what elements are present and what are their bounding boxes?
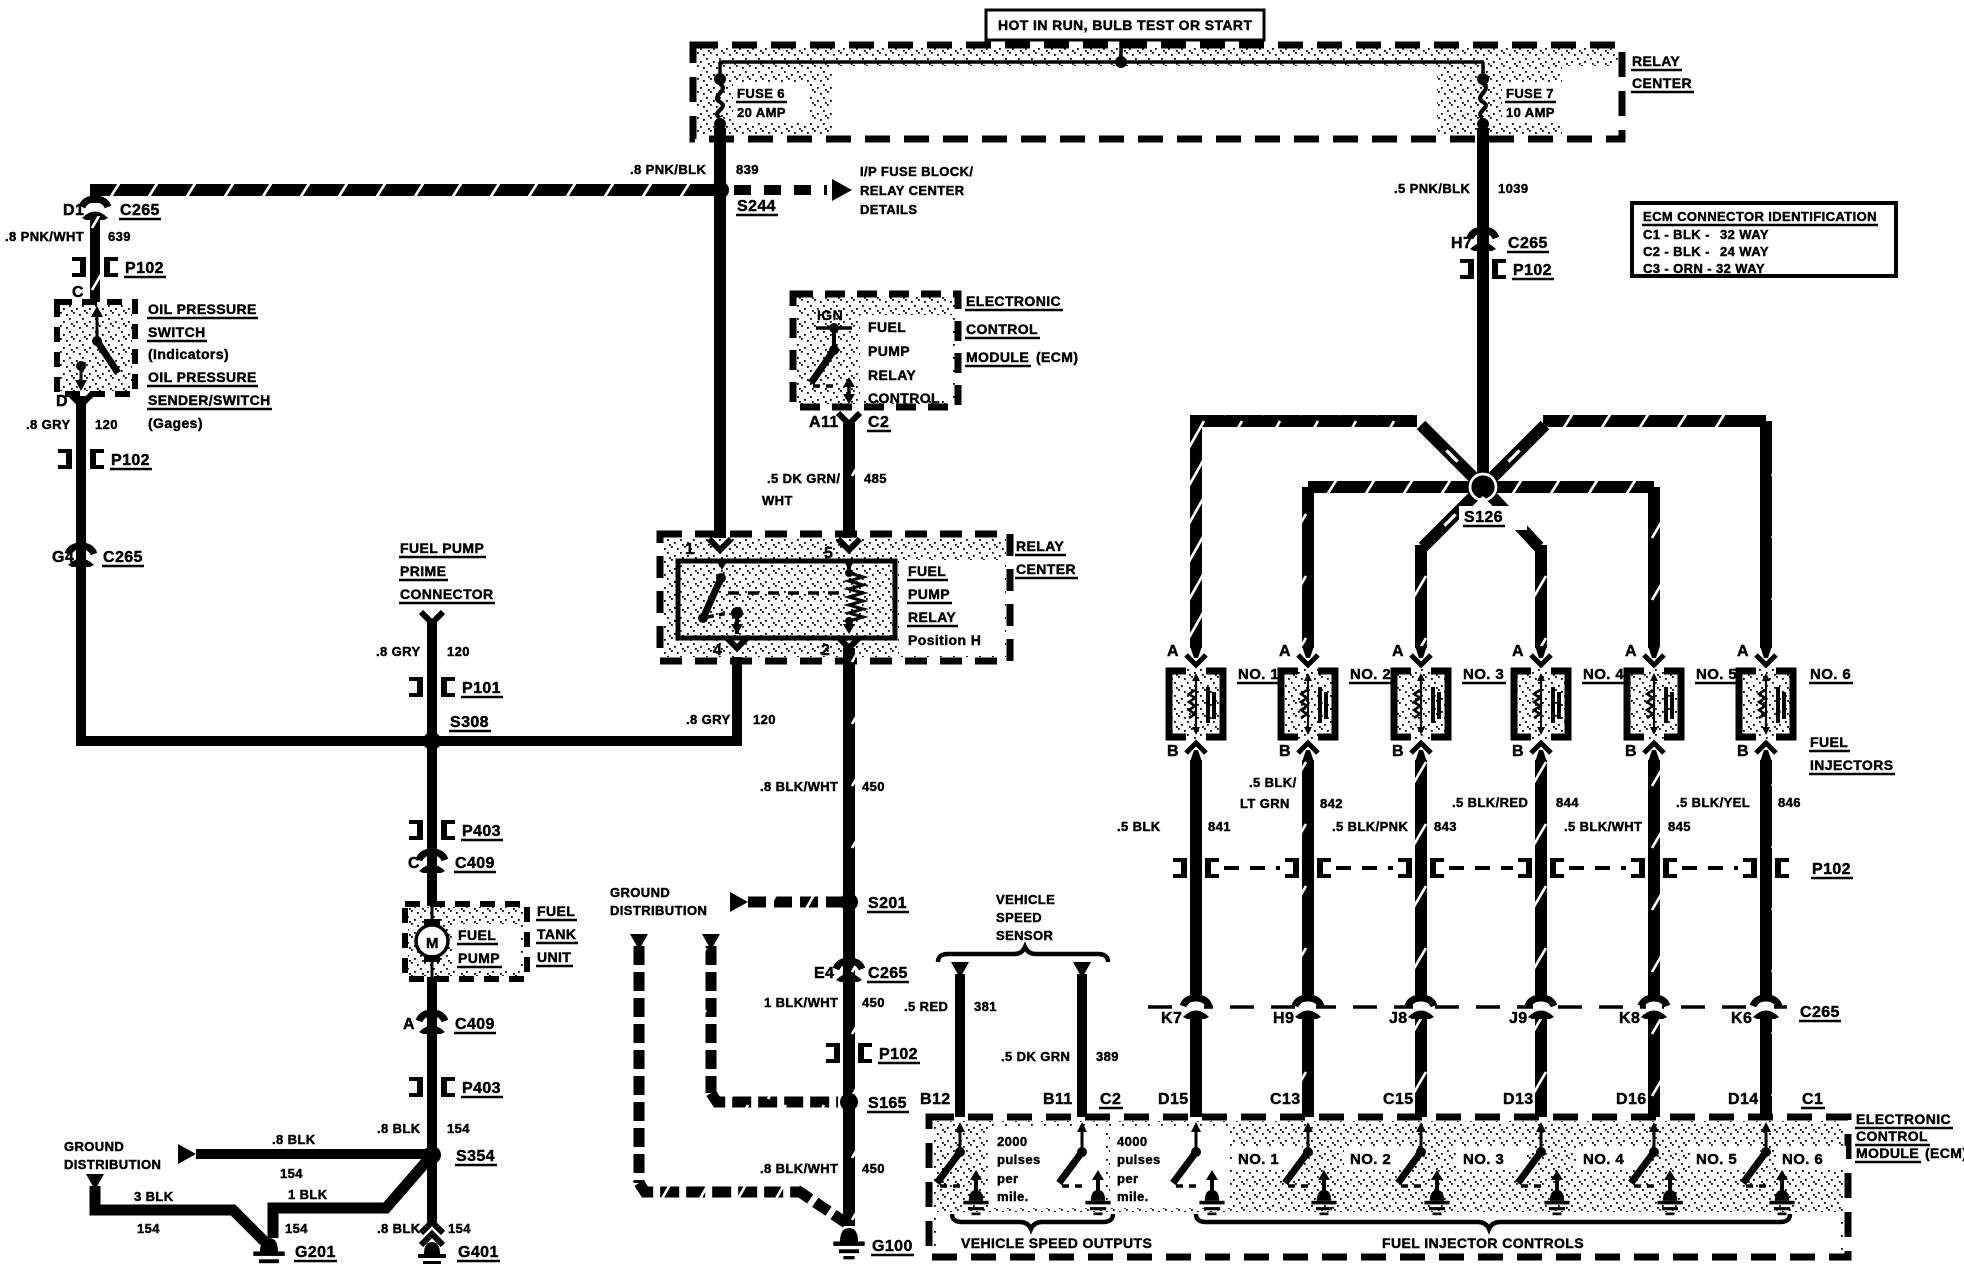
svg-text:10 AMP: 10 AMP [1506,105,1555,120]
label .8 BLK/WHT 450 lower [760,1161,885,1176]
svg-text:DETAILS: DETAILS [860,202,917,217]
wire injector feed 5 [1483,479,1654,648]
oil pressure switch labels [147,301,272,431]
fuel pump prime connector label [399,540,495,603]
relay center (middle) label [1015,538,1078,578]
svg-text:D13: D13 [1503,1091,1534,1108]
ground G401 [418,1242,446,1264]
label D1 C265 [63,202,161,219]
label .5 DK GRN 389 [1001,1049,1119,1064]
label B pin injector 5 [1625,743,1637,760]
svg-text:154: 154 [448,1221,471,1236]
wire injector 6 to ECM [1760,760,1772,1117]
label .8 BLK/WHT 450 upper [760,779,885,794]
label NO. 3 driver [1457,1146,1527,1170]
label C C409 [408,855,496,872]
svg-text:NO. 5: NO. 5 [1696,1151,1737,1168]
label B pin injector 2 [1279,743,1291,760]
label pin 1 [685,541,694,558]
svg-text:TANK: TANK [537,926,576,942]
svg-text:B12: B12 [920,1091,951,1108]
svg-text:C: C [408,855,420,872]
label NO. 3 [1462,666,1506,683]
label NO. 6 driver [1776,1146,1846,1170]
label 1 BLK 154 [285,1187,328,1236]
connector row C265 (injectors) [1148,997,1790,1019]
fuse 6 label [733,84,809,122]
svg-text:B: B [1512,743,1524,760]
svg-text:OIL PRESSURE: OIL PRESSURE [148,301,257,317]
svg-text:.5 BLK: .5 BLK [1117,819,1161,834]
connector C265 pin D1 [82,199,108,220]
svg-text:G100: G100 [872,1238,913,1255]
svg-text:.8 PNK/BLK: .8 PNK/BLK [630,162,706,177]
label P102 [1512,262,1554,279]
svg-text:RELAY: RELAY [1632,53,1680,69]
wire 3 BLK [86,1174,264,1241]
wire 639 PNK/WHT [90,216,100,302]
svg-text:P102: P102 [111,452,150,469]
label .8 BLK 154 g401 [377,1221,471,1236]
connector P102 (left) [72,257,118,277]
label .5 DK GRN/WHT 465 [762,471,887,508]
driver injector 5 [1631,1122,1683,1215]
wire injector 2 to ECM [1302,760,1314,1117]
fuel tank unit box [405,904,527,979]
svg-text:P403: P403 [462,1080,501,1097]
svg-text:PUMP: PUMP [458,950,500,966]
svg-text:(ECM): (ECM) [1925,1145,1964,1161]
svg-text:C: C [72,284,84,301]
wire 465 DK GRN/WHT [843,423,855,540]
terminal cup pin 1 [709,539,731,550]
svg-text:20 AMP: 20 AMP [737,105,786,120]
label P101 [461,680,503,697]
label A C409 [403,1016,496,1033]
svg-text:.5 DK GRN/: .5 DK GRN/ [767,471,840,486]
vehicle speed sensor brace [938,947,1108,962]
svg-text:.8 BLK/WHT: .8 BLK/WHT [760,779,838,794]
ground distribution dashed wire right [702,934,838,1102]
wire 1039 PNK/BLK [1477,128,1489,487]
label NO. 4 [1582,666,1626,683]
wire injector 4 to ECM [1535,760,1547,1117]
wire injector 3 to ECM [1415,760,1427,1117]
svg-text:.8 BLK/WHT: .8 BLK/WHT [760,1161,838,1176]
label NO. 1 driver [1232,1146,1302,1170]
svg-text:.5 BLK/: .5 BLK/ [1249,775,1297,790]
wire injector feed 2 [1308,479,1483,648]
wire injector 5 to ECM [1648,760,1660,1117]
svg-text:VEHICLE SPEED OUTPUTS: VEHICLE SPEED OUTPUTS [961,1235,1152,1251]
label I/P fuse block details [860,164,973,217]
svg-text:CENTER: CENTER [1016,561,1076,577]
terminal cup pin 4 [726,637,748,648]
svg-text:C1: C1 [1802,1091,1823,1108]
connector C265 pin G4 [68,546,94,567]
label S201 [867,895,909,912]
label G100 [871,1238,914,1255]
label 1 BLK/WHT 450 [764,995,885,1010]
injector NO. 6 [1739,646,1793,762]
svg-text:(ECM): (ECM) [1036,349,1078,365]
relay linkage dashed line [728,591,843,595]
wire .8 BLK to ground distribution [178,1144,432,1164]
label .8 PNK/BLK 839 [630,162,759,177]
svg-text:UNIT: UNIT [537,949,571,965]
wire injector feed 6 [1483,413,1766,648]
label P403 upper [461,823,503,840]
fuse 7 label [1502,84,1578,122]
svg-text:H9: H9 [1273,1010,1294,1027]
wire 639 PNK/BLK horizontal run [95,182,720,198]
label C1 [1801,1091,1825,1108]
wire 1 BLK [273,1155,432,1238]
svg-text:A: A [1512,643,1524,660]
node S201 [840,893,858,911]
wire fuel pump to S354 [427,977,437,1155]
svg-text:WHT: WHT [762,493,793,508]
injector NO. 2 [1281,646,1335,762]
svg-text:B: B [1392,743,1404,760]
svg-text:120: 120 [95,417,118,432]
label IGN [817,307,843,323]
label .8 BLK 154 horiz [272,1132,316,1181]
wire 389 DK GRN [1073,962,1091,1117]
svg-text:2: 2 [821,642,830,659]
svg-text:SPEED: SPEED [996,910,1042,925]
label 3 BLK 154 [134,1189,174,1236]
connector C265 pin E4 [836,961,862,982]
svg-text:485: 485 [864,471,887,486]
svg-text:GROUND: GROUND [64,1139,124,1154]
injector NO. 5 [1627,646,1681,762]
wire to ground distribution (S201) [730,892,843,912]
svg-text:C265: C265 [103,549,143,566]
svg-text:ELECTRONIC: ELECTRONIC [1856,1111,1951,1127]
svg-text:OIL PRESSURE: OIL PRESSURE [148,369,257,385]
label NO. 4 driver [1577,1146,1647,1170]
svg-text:(Indicators): (Indicators) [148,346,229,362]
svg-text:pulses: pulses [1117,1152,1161,1167]
driver 2000 ppm [937,1122,989,1215]
svg-text:VEHICLE: VEHICLE [996,892,1055,907]
fuel injector controls brace [1196,1214,1790,1229]
svg-text:154: 154 [137,1221,160,1236]
label ECM pin 2 [1270,1091,1301,1108]
svg-text:NO. 4: NO. 4 [1583,666,1624,683]
fuel pump relay outline [678,561,895,638]
svg-text:C265: C265 [868,965,908,982]
svg-text:CONTROL: CONTROL [868,390,940,406]
svg-text:NO. 6: NO. 6 [1782,1151,1823,1168]
svg-text:639: 639 [108,229,131,244]
svg-text:.8 GRY: .8 GRY [26,417,71,432]
wire 639 down to D1 [90,184,100,203]
wire injector feed 3 [1421,487,1483,648]
label K7 [1161,1010,1182,1027]
svg-text:A: A [1167,643,1179,660]
svg-text:IGN: IGN [817,307,843,323]
label P102 row [1811,861,1853,878]
terminal cup pin 2 [838,637,860,648]
label A11 C2 [809,414,891,431]
svg-text:A11: A11 [809,414,839,431]
svg-text:NO. 1: NO. 1 [1238,1151,1279,1168]
svg-text:H7: H7 [1451,235,1472,252]
wire 120 GRY left [81,396,737,741]
svg-text:C265: C265 [120,202,160,219]
svg-text:S165: S165 [868,1095,907,1112]
svg-text:A: A [403,1016,415,1033]
svg-text:24 WAY: 24 WAY [1720,244,1769,259]
svg-text:FUEL: FUEL [537,903,575,919]
svg-text:B: B [1279,743,1291,760]
label .5 BLK/YEL 846 [1676,795,1801,810]
label .8 GRY 120 left [26,417,118,432]
svg-text:842: 842 [1320,796,1343,811]
svg-text:FUEL: FUEL [458,927,496,943]
driver injector 2 [1285,1122,1337,1215]
svg-text:P102: P102 [1812,861,1851,878]
svg-text:C409: C409 [455,1016,495,1033]
ECM label (bottom) [1855,1111,1964,1162]
ECM bottom box [929,1117,1848,1257]
svg-text:1: 1 [685,541,694,558]
terminal cup fuel pump prime [421,612,443,623]
svg-text:FUEL: FUEL [868,319,906,335]
svg-text:.5 BLK/RED: .5 BLK/RED [1452,795,1528,810]
svg-text:120: 120 [447,644,470,659]
svg-text:S354: S354 [456,1148,495,1165]
svg-text:D15: D15 [1158,1091,1189,1108]
svg-text:(Gages): (Gages) [148,415,203,431]
svg-text:A: A [1625,643,1637,660]
relay switch [698,560,743,634]
svg-text:NO. 1: NO. 1 [1238,666,1279,683]
svg-text:PUMP: PUMP [868,343,910,359]
driver 4000 ppm [1059,1122,1111,1215]
label G4 C265 [52,549,144,566]
svg-text:P102: P102 [1513,262,1552,279]
svg-text:FUSE 7: FUSE 7 [1506,86,1554,101]
label .5 BLK/LT GRN 842 [1240,775,1343,811]
label fuel injector controls [1382,1235,1584,1251]
svg-text:PRIME: PRIME [400,563,446,579]
wire stub to I/P fuse block details (arrow) [734,179,852,201]
connector P101 [409,677,455,697]
svg-text:450: 450 [862,995,885,1010]
node S308 [423,732,441,750]
ground distribution label mid [610,885,707,918]
svg-text:RELAY: RELAY [868,367,916,383]
svg-text:C3 - ORN - 32 WAY: C3 - ORN - 32 WAY [1643,261,1765,276]
label P102 gry [110,452,152,469]
svg-text:4000: 4000 [1117,1134,1148,1149]
svg-text:D: D [56,393,68,410]
svg-text:.8 PNK/WHT: .8 PNK/WHT [5,229,84,244]
svg-text:154: 154 [280,1166,303,1181]
label H9 [1273,1010,1294,1027]
label K6 [1731,1010,1752,1027]
svg-text:C409: C409 [455,855,495,872]
svg-text:P101: P101 [462,680,501,697]
node at bus tap [1115,56,1127,68]
label A pin injector 3 [1392,643,1404,660]
svg-text:120: 120 [753,712,776,727]
label P403 lower [461,1080,503,1097]
label 2000 pulses per mile [997,1134,1041,1204]
label .8 BLK 154 upper [377,1121,470,1136]
fuel pump relay control switch [811,323,855,404]
ground distribution dashed wire left [630,934,846,1223]
svg-text:S126: S126 [1464,509,1503,526]
svg-text:NO. 6: NO. 6 [1810,666,1851,683]
label P102 450 [878,1046,920,1063]
svg-text:NO. 2: NO. 2 [1350,666,1391,683]
svg-text:RELAY CENTER: RELAY CENTER [860,183,965,198]
connector P102 (H7 wire) [1460,259,1506,279]
svg-text:K8: K8 [1619,1010,1640,1027]
svg-text:M: M [426,935,439,952]
svg-text:NO. 3: NO. 3 [1463,666,1504,683]
svg-text:839: 839 [736,162,759,177]
svg-text:P102: P102 [879,1046,918,1063]
connector P102 (GRY) [58,449,104,469]
fuel tank unit label [536,903,578,966]
relay center (top) label [1631,53,1694,92]
node S354 [423,1146,441,1164]
label .5 RED 381 [904,999,997,1014]
label .8 GRY 120 relay leg [686,712,776,727]
label G201 [294,1244,337,1261]
driver injector 1 [1173,1122,1225,1215]
svg-text:J8: J8 [1389,1010,1408,1027]
svg-text:RELAY: RELAY [908,609,956,625]
svg-text:per: per [1117,1171,1138,1186]
svg-text:P102: P102 [125,260,164,277]
node S244 [711,181,729,199]
wire fuse6 to relay pin 1 [714,128,726,540]
label C terminal [72,284,84,301]
svg-text:P403: P403 [462,823,501,840]
svg-text:CONNECTOR: CONNECTOR [400,586,494,602]
ECM connector identification box [1632,203,1896,276]
svg-text:B: B [1625,743,1637,760]
svg-text:.5 BLK/YEL: .5 BLK/YEL [1676,795,1750,810]
svg-text:RELAY: RELAY [1016,538,1064,554]
svg-text:.8 GRY: .8 GRY [376,644,421,659]
svg-text:B: B [1167,743,1179,760]
label J8 [1389,1010,1408,1027]
label vehicle speed outputs [961,1235,1152,1251]
svg-text:SENDER/SWITCH: SENDER/SWITCH [148,392,271,408]
connector C409 pin C [419,852,445,873]
svg-text:450: 450 [862,1161,885,1176]
connector P403 lower [409,1077,455,1097]
svg-text:.5 PNK/BLK: .5 PNK/BLK [1394,181,1470,196]
label pin 4 [713,642,722,659]
wire S354 to G401 [427,1155,437,1222]
svg-text:B: B [1737,743,1749,760]
fuse 7 [1477,62,1489,130]
label B pin injector 4 [1512,743,1524,760]
connector P102 (450) [826,1043,872,1063]
label .5 PNK/BLK 1039 [1394,181,1529,196]
svg-text:G201: G201 [295,1244,336,1261]
connector C409 pin A [419,1013,445,1034]
wire 381 RED [951,962,969,1117]
ECM fuel pump relay control box [793,294,958,407]
svg-text:.5 DK GRN: .5 DK GRN [1001,1049,1070,1064]
fuse 6 [714,62,726,130]
label ECM pin 3 [1383,1091,1414,1108]
svg-text:2000: 2000 [997,1134,1028,1149]
node S165 [840,1093,858,1111]
svg-text:K6: K6 [1731,1010,1752,1027]
relay center (top) dashed box [693,45,1622,139]
svg-text:.8 BLK: .8 BLK [377,1121,421,1136]
svg-text:FUEL INJECTOR CONTROLS: FUEL INJECTOR CONTROLS [1382,1235,1584,1251]
label ECM pin 5 [1616,1091,1647,1108]
svg-text:C2: C2 [868,414,889,431]
svg-text:3 BLK: 3 BLK [134,1189,174,1204]
label .8 PNK/WHT 639 [5,229,131,244]
svg-text:B11: B11 [1043,1091,1073,1108]
svg-text:S308: S308 [450,714,489,731]
label .5 BLK/RED 844 [1452,795,1579,810]
label J9 [1509,1010,1528,1027]
label NO. 2 driver [1344,1146,1414,1170]
label S308 [449,714,491,731]
svg-text:.8 GRY: .8 GRY [686,712,731,727]
svg-text:LT GRN: LT GRN [1240,796,1290,811]
svg-text:846: 846 [1778,795,1801,810]
label ECM pin 6 [1728,1091,1759,1108]
svg-text:154: 154 [285,1221,308,1236]
ground distribution label left [64,1139,161,1172]
svg-text:C1 - BLK -: C1 - BLK - [1643,227,1710,242]
label C265 row [1799,1004,1841,1021]
fuel pump label [452,924,520,970]
label K8 [1619,1010,1640,1027]
fuel pump relay control label [868,319,940,406]
label pin 2 [821,642,830,659]
svg-text:GROUND: GROUND [610,885,670,900]
svg-text:A: A [1392,643,1404,660]
label B pin injector 3 [1392,743,1404,760]
label ECM pin 4 [1503,1091,1534,1108]
svg-text:4: 4 [713,642,722,659]
label A pin injector 5 [1625,643,1637,660]
svg-text:.5 BLK/PNK: .5 BLK/PNK [1332,819,1408,834]
svg-text:845: 845 [1668,819,1691,834]
wire S308 to fuel pump [427,741,437,906]
vehicle speed sensor label [996,892,1055,943]
vehicle speed outputs brace [952,1214,1113,1229]
label .5 BLK/WHT 845 [1564,819,1691,834]
svg-text:450: 450 [862,779,885,794]
connector row P102 (injectors) [1173,858,1789,878]
label S165 [867,1095,909,1112]
svg-text:C2: C2 [1100,1091,1121,1108]
terminal cup pin 5 [838,539,860,550]
label B12 [920,1091,951,1108]
label .5 BLK/PNK 843 [1332,819,1457,834]
hot in run feed label box [986,10,1264,40]
label NO. 5 driver [1690,1146,1760,1170]
svg-text:389: 389 [1096,1049,1119,1064]
